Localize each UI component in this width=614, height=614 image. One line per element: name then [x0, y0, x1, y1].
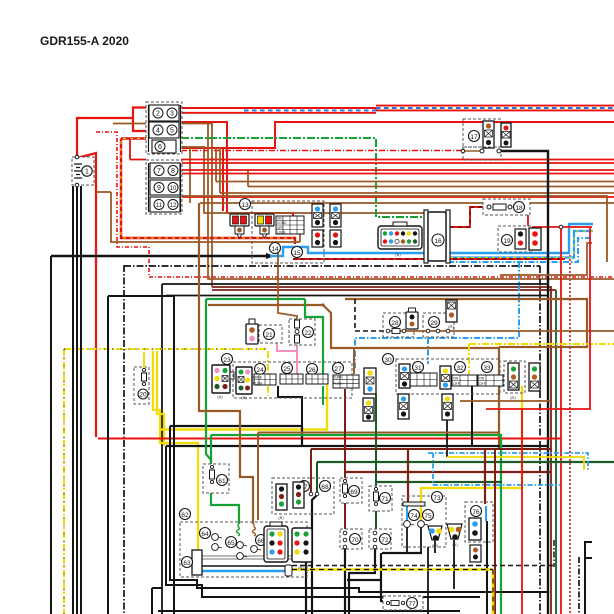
- wire red/yellow striped: [121, 139, 295, 245]
- battery 1: [72, 155, 94, 187]
- injector 74: [404, 510, 420, 528]
- wire brown y279: [208, 124, 614, 279]
- comp 21: [259, 325, 282, 343]
- stator rings: [309, 492, 319, 496]
- wire black comp76 ground: [486, 521, 488, 614]
- engine connector 66A: [264, 522, 288, 562]
- comp 72: [369, 529, 391, 549]
- connector pair near 13 right lower: [312, 230, 323, 247]
- wire black spark plugs ground: [407, 527, 421, 553]
- wire black bottom verticals: [152, 588, 163, 614]
- comp 17 connector A: [483, 121, 494, 148]
- svg-text:20: 20: [139, 392, 147, 399]
- wire green solid ignition coil feed: [206, 299, 323, 466]
- wire black engine y446: [166, 445, 548, 447]
- svg-text:22: 22: [304, 330, 312, 337]
- wire black dash pair bottom right: [554, 540, 579, 614]
- wire maroon y290: [212, 290, 556, 614]
- svg-text:74: 74: [410, 513, 418, 520]
- spark plug 66: [251, 535, 267, 553]
- svg-text:69: 69: [350, 489, 358, 496]
- wire red dash-dot R/W left: [96, 132, 614, 277]
- wire brown comp21 feed: [278, 242, 297, 321]
- wire red bus 4: [181, 173, 614, 175]
- svg-text:32: 32: [456, 365, 464, 372]
- wire yellow dash-dot to sw24: [267, 351, 269, 396]
- wire dkgreen y462: [317, 461, 614, 463]
- svg-text:16: 16: [434, 238, 442, 245]
- meter connector A: [212, 365, 234, 399]
- svg-text:62: 62: [181, 512, 189, 519]
- wire dkgreen comp68 feed: [316, 462, 318, 493]
- wire yellow dash-dot left main: [64, 349, 268, 614]
- spark plug 65: [226, 537, 248, 560]
- svg-text:61: 61: [218, 478, 226, 485]
- wire yellow h457: [447, 420, 584, 470]
- wire red bus 3: [181, 169, 614, 171]
- fuse 29: [423, 313, 454, 337]
- switch 32: [452, 362, 477, 387]
- multi-pin connector B 12pin: [378, 222, 422, 257]
- connector pair B2 upper: [330, 204, 341, 227]
- fuse box under 17: [461, 147, 501, 160]
- svg-text:15: 15: [293, 250, 301, 257]
- meter connector B: [236, 367, 252, 400]
- svg-text:8: 8: [171, 168, 175, 175]
- connector below 76: [470, 545, 481, 562]
- wire red bus 5: [181, 196, 614, 198]
- svg-text:25: 25: [283, 366, 291, 373]
- svg-text:ON: ON: [479, 376, 485, 380]
- handlebar switch box left: [233, 362, 352, 398]
- svg-text:(B): (B): [452, 542, 458, 547]
- injector 75: [418, 510, 434, 528]
- connector pair near 13 right: [312, 204, 323, 227]
- wire black harness y256 arrow: [51, 253, 275, 614]
- svg-text:(W): (W): [432, 543, 439, 548]
- wire yellow sw26 return: [160, 385, 327, 430]
- wire red y409: [486, 228, 590, 409]
- wire red engine y437: [98, 438, 561, 440]
- svg-text:73: 73: [433, 495, 441, 502]
- svg-text:29: 29: [430, 320, 438, 327]
- wire brown right U small: [500, 243, 592, 275]
- wire maroon injector feed: [407, 449, 409, 503]
- wire black sw24 output: [278, 386, 302, 426]
- wire pink comp21: [277, 342, 297, 375]
- svg-text:12: 12: [170, 203, 177, 209]
- connector below 31: [398, 394, 409, 419]
- wire brown long y196: [181, 196, 607, 262]
- wire maroon comp67 feed: [311, 449, 551, 493]
- connector pair B2 lower: [330, 230, 341, 247]
- wire red bus 2: [181, 162, 614, 164]
- svg-text:OFF: OFF: [277, 226, 283, 230]
- connector below 32: [442, 394, 453, 420]
- svg-text:21: 21: [265, 332, 273, 339]
- comp 21 connector: [246, 319, 258, 344]
- ignition coil box 62: [180, 509, 308, 578]
- wire green below sw26: [322, 386, 324, 405]
- ignition connector A: [230, 214, 249, 238]
- svg-text:5: 5: [170, 128, 174, 135]
- wire black O2 grounds: [435, 540, 454, 589]
- throttle body box 73: [402, 492, 446, 548]
- ignition connector B: [255, 214, 274, 238]
- fuse 28: [383, 313, 414, 337]
- handlebar switch box 30: [383, 354, 501, 395]
- wire red after fuse18: [513, 207, 592, 614]
- svg-text:9: 9: [157, 185, 161, 192]
- comp 76: [465, 502, 493, 542]
- wire red battery B: [77, 153, 96, 437]
- circled 23: [222, 354, 233, 365]
- wire black comp67 ground: [312, 495, 317, 614]
- spark plug 64: [200, 528, 223, 551]
- wire red second down feed: [222, 148, 224, 211]
- wire green engine y435: [211, 435, 501, 614]
- svg-text:LOCK: LOCK: [277, 230, 287, 234]
- svg-text:72: 72: [381, 537, 389, 544]
- wire maroon throttle feed: [484, 449, 486, 504]
- stator connector A: [276, 484, 287, 520]
- wire black fuse72 down: [349, 549, 375, 614]
- wire black battery cables: [73, 186, 81, 614]
- svg-text:7: 7: [157, 168, 161, 175]
- wire maroon y472: [345, 471, 551, 473]
- wire black harness L1: [170, 426, 548, 592]
- connector R right of 30: [504, 361, 525, 400]
- connector left of 32: [440, 366, 451, 389]
- wire red black-dash to fuse18: [426, 207, 488, 227]
- svg-text:(A): (A): [217, 394, 223, 399]
- wire brown comp17 link: [463, 150, 482, 152]
- main fuse 18: [483, 199, 530, 215]
- switch 33: [478, 362, 503, 387]
- svg-text:OFF: OFF: [479, 382, 486, 386]
- wire brown ign table return: [299, 234, 301, 242]
- wire yellow throttle from sw33: [421, 386, 522, 521]
- svg-text:PUSH: PUSH: [333, 382, 343, 386]
- svg-text:OFF: OFF: [453, 382, 460, 386]
- svg-text:10: 10: [170, 186, 177, 192]
- wire blue speedo 14-15: [270, 224, 593, 256]
- wire black y296 main: [166, 295, 548, 297]
- svg-text:76: 76: [472, 509, 480, 516]
- svg-text:18: 18: [515, 205, 523, 212]
- svg-text:ON: ON: [453, 376, 459, 380]
- switch 24: [253, 364, 276, 386]
- svg-text:FREE: FREE: [253, 376, 263, 380]
- wire red bus 1: [181, 159, 614, 161]
- throttle bar: [403, 502, 425, 506]
- connector above 28: [406, 308, 418, 329]
- svg-text:GDR155-A 2020: GDR155-A 2020: [40, 34, 129, 48]
- wire brown second coil: [258, 433, 499, 521]
- svg-text:26: 26: [308, 367, 316, 374]
- ignition switch table: [276, 216, 304, 234]
- title text: [40, 34, 129, 48]
- connector right of 27: [364, 368, 376, 394]
- fuse 61: [203, 464, 229, 493]
- svg-text:33: 33: [483, 365, 491, 372]
- wire black bottom edge: [158, 610, 460, 612]
- fuse 71: [369, 486, 392, 511]
- svg-text:(B): (B): [278, 515, 284, 520]
- svg-text:PUSH: PUSH: [253, 382, 263, 386]
- svg-text:28: 28: [391, 320, 399, 327]
- comp 19: [498, 226, 532, 252]
- O2 sensor W: [428, 526, 442, 548]
- wire brown B1: [113, 124, 614, 288]
- wire red battery A: [77, 108, 149, 159]
- fuse 77: [383, 596, 423, 610]
- wire green below fuse61: [211, 492, 239, 524]
- wire blue comp76: [485, 506, 487, 521]
- svg-text:14: 14: [271, 246, 279, 253]
- wire red dash-dot to comp17: [181, 150, 462, 152]
- wire brown frame 28-29 top: [208, 299, 587, 449]
- wire black y284: [162, 284, 548, 614]
- svg-text:23: 23: [223, 357, 231, 364]
- wire black dash-dot main: [124, 265, 540, 614]
- svg-text:(B): (B): [395, 252, 401, 257]
- wire brown comp22 feed: [96, 192, 300, 242]
- engine connector 66B: [292, 528, 312, 570]
- connector P far right: [529, 363, 540, 391]
- wire brown B2 to conn16: [181, 147, 426, 213]
- svg-text:31: 31: [414, 365, 422, 372]
- wire dkgreen fuse71 branch: [375, 394, 377, 529]
- svg-text:24: 24: [256, 367, 264, 374]
- wire black from comp17 down right: [500, 151, 548, 614]
- svg-text:3: 3: [170, 111, 174, 118]
- comp 70: [340, 529, 362, 549]
- switch 25: [280, 363, 303, 385]
- stator connector B: [293, 482, 304, 508]
- wire brown y401: [460, 400, 551, 402]
- fuse 20: [134, 352, 149, 404]
- wire black comp73 down: [427, 547, 429, 614]
- comp 17 box: [463, 119, 501, 147]
- wire red headlight feed: [181, 122, 614, 148]
- svg-text:11: 11: [156, 203, 163, 209]
- wire red v522: [521, 409, 523, 614]
- wire black engine y426: [170, 426, 302, 446]
- wire brown sw27 feed: [353, 348, 355, 374]
- wire red/blue main bus top: [181, 106, 614, 113]
- svg-text:63: 63: [183, 560, 191, 567]
- connector left of 31: [399, 364, 410, 388]
- ignition switch 13: [240, 199, 325, 264]
- O2 sensor B: [447, 524, 462, 547]
- relay box A 2-6: [146, 102, 182, 154]
- stator box 67 68: [272, 478, 334, 514]
- wire blue injector: [406, 506, 408, 521]
- svg-text:71: 71: [381, 496, 389, 503]
- wire blue bottom to plug: [202, 566, 285, 571]
- wire green dash-dot G/W: [181, 138, 426, 217]
- svg-text:75: 75: [424, 513, 432, 520]
- wire maroon y287: [212, 287, 551, 614]
- wire blue dash h485: [433, 453, 560, 485]
- wire black fuse70 down: [344, 547, 346, 614]
- wire brown to coil66: [199, 203, 253, 524]
- wire black corner bottom right: [585, 542, 592, 614]
- switch 26: [306, 364, 328, 385]
- comp 19 connector right: [529, 228, 541, 250]
- wire red dotted vertical right branch: [569, 255, 571, 614]
- switch 31: [410, 362, 437, 387]
- svg-text:COND: COND: [277, 221, 287, 225]
- wire black/yellow bottom bus: [292, 566, 556, 614]
- svg-text:27: 27: [334, 366, 342, 373]
- svg-text:ON: ON: [277, 217, 282, 221]
- wire black harness L2: [166, 446, 480, 597]
- circled 14: [270, 243, 281, 254]
- svg-text:4: 4: [156, 128, 160, 135]
- svg-text:(R): (R): [448, 324, 454, 329]
- wire black sw32 output: [471, 386, 473, 447]
- svg-text:1: 1: [85, 169, 89, 176]
- svg-text:77: 77: [408, 601, 416, 608]
- wire blue dash-dot U and branch: [355, 238, 593, 368]
- fuse 69: [340, 478, 362, 503]
- svg-text:6: 6: [158, 144, 162, 151]
- coil 63: [182, 550, 203, 575]
- svg-text:30: 30: [384, 357, 392, 364]
- wire gray coil leads: [201, 556, 300, 559]
- svg-text:68: 68: [321, 484, 329, 491]
- svg-text:65: 65: [227, 540, 235, 547]
- wire blue dash h453: [428, 453, 588, 470]
- wire maroon v495: [494, 449, 496, 614]
- relay box B 7-12: [146, 160, 182, 214]
- connector right of 29: [446, 300, 457, 329]
- svg-text:(R): (R): [510, 395, 516, 400]
- coil resistor symbols: [237, 524, 256, 536]
- wire black y296 left: [108, 295, 174, 614]
- wire red main down feed: [181, 122, 293, 217]
- wire yellow pair left: [153, 351, 198, 551]
- svg-text:17: 17: [470, 134, 478, 141]
- plug joint bottom: [285, 565, 292, 576]
- wire black bottom v306: [305, 560, 307, 614]
- wire brown right step: [216, 147, 614, 193]
- svg-text:13: 13: [241, 202, 249, 209]
- connector below 27: [363, 398, 374, 421]
- wire maroon fuse69 branch: [344, 389, 346, 531]
- wire blue yellow-dash U: [448, 231, 593, 258]
- wire dkgreen y482: [376, 481, 502, 483]
- circled 15: [292, 247, 303, 258]
- wire yellow dash-dot right y344: [469, 344, 614, 374]
- wire black plug ground rail: [347, 553, 422, 602]
- svg-text:2: 2: [156, 111, 160, 118]
- ECU connector 16: [424, 210, 450, 263]
- wire red black-dash y259: [293, 258, 565, 260]
- fuse 22: [289, 319, 315, 345]
- comp 17 connector B: [501, 123, 511, 147]
- switch 27: [333, 363, 360, 389]
- svg-text:64: 64: [201, 531, 209, 538]
- svg-text:(B): (B): [298, 565, 304, 570]
- wire brown fuse row 28-29: [355, 299, 614, 331]
- svg-text:70: 70: [351, 537, 359, 544]
- svg-text:TURN: TURN: [333, 376, 343, 380]
- svg-text:19: 19: [503, 238, 511, 245]
